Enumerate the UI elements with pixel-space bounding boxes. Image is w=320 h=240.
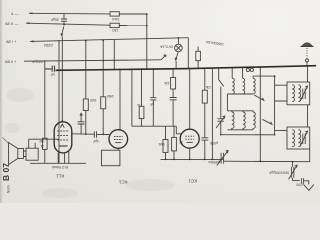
junction dots on bus and nodes <box>58 13 308 162</box>
svg-text:0M1: 0M1 <box>158 142 164 146</box>
volume control variable (500k) <box>221 153 224 164</box>
wire vertical x=212.4 <box>211 68 213 159</box>
wire to tube3 left <box>176 126 181 134</box>
capacitor right of KL1 <box>78 113 85 133</box>
wire vertical x=204.8 <box>204 68 206 90</box>
wire to 200pF cap <box>293 178 300 181</box>
coil upper 3 <box>253 76 255 94</box>
bottom line y=159.4 <box>161 158 225 160</box>
svg-text:AE I +: AE I + <box>6 40 17 44</box>
svg-text:31k0: 31k0 <box>112 17 119 21</box>
wire vertical lamp feed x=188.3 <box>187 38 189 69</box>
wire horizontal y=126.2 <box>132 125 176 127</box>
speaker leads <box>24 151 27 157</box>
capacitor 500pF <box>201 138 208 140</box>
svg-text:610µF: 610µF <box>31 60 42 64</box>
svg-text:Kl.Z 54mA: Kl.Z 54mA <box>51 165 68 169</box>
wire row C (AE I) <box>30 38 188 42</box>
wire switch to bus <box>175 61 177 69</box>
wire bottom right run <box>224 160 310 163</box>
ground branch <box>292 162 294 167</box>
loop contacts under bus <box>246 68 249 71</box>
wire transformer to x=59 <box>29 138 59 140</box>
coil uppers bottom bus wire <box>227 94 253 111</box>
resistor midfield 2 <box>101 97 106 109</box>
shield box under tube2 <box>102 150 120 166</box>
svg-text:B 07: B 07 <box>1 163 11 181</box>
wire lamp top <box>177 38 179 44</box>
resistor right mid <box>202 90 207 103</box>
tube2 electrodes <box>114 137 123 140</box>
trimmer branch <box>220 87 222 119</box>
coil upper 1 <box>232 67 234 94</box>
svg-text:1M0: 1M0 <box>90 98 96 102</box>
svg-text:4 —: 4 — <box>11 11 18 16</box>
ground symbol <box>304 185 314 191</box>
trimmer capacitor TR1 <box>217 119 224 121</box>
antenna jack top right <box>301 45 314 47</box>
wire vertical x=114.3 <box>113 40 115 70</box>
svg-text:2V 0,1A: 2V 0,1A <box>160 45 173 49</box>
svg-text:12k: 12k <box>164 81 170 85</box>
box2 trimmer <box>303 134 305 145</box>
wire below resistor 2 <box>102 109 104 135</box>
switch row D <box>161 55 166 60</box>
coil lower 3 <box>253 111 255 130</box>
main bus <box>56 66 316 71</box>
variable capacitor 500/1000 <box>291 167 293 178</box>
coil lowers top wire <box>227 110 253 112</box>
wire row B (AE II) <box>26 23 110 25</box>
junction dots row D <box>44 60 46 62</box>
wire below resistor 3 <box>141 119 143 127</box>
wire tube1 to cap branch <box>72 133 95 135</box>
wire vertical x=59 rowC to bottom line <box>58 41 60 163</box>
wire vertical x=62.3 to tube1 top <box>61 36 63 121</box>
coil box 1 <box>287 82 310 105</box>
wire below capacitor <box>152 100 154 126</box>
junction row B x=64 <box>63 24 65 26</box>
svg-text:2k: 2k <box>137 103 141 107</box>
capacitor 200pF <box>301 178 303 183</box>
capacitor midfield <box>150 98 156 100</box>
lamp pilot <box>175 44 183 52</box>
resistor bottom mid 1 <box>165 126 167 139</box>
tube3 electrodes <box>185 136 194 139</box>
bottom line under KL1 <box>30 162 86 164</box>
resistor bottom mid 2 <box>173 126 175 137</box>
wire below resistor <box>44 149 46 163</box>
wire vertical x=146.8 <box>146 14 148 69</box>
output transformer box <box>26 148 38 160</box>
wires into box1 <box>275 85 287 101</box>
svg-text:KC1: KC1 <box>118 179 127 184</box>
wire vertical x=141.5 <box>141 69 143 106</box>
box2 coil a <box>292 130 294 147</box>
svg-text:1W0: 1W0 <box>107 94 114 98</box>
resistor midfield 1 <box>83 99 88 111</box>
tube KL1 grids <box>57 131 69 140</box>
tube3 bottom stub <box>189 148 191 159</box>
wire vertical x=274.6 <box>253 76 275 135</box>
box2 coil b <box>298 130 300 147</box>
series capacitor 5uF <box>94 131 96 138</box>
diagonal scan line left <box>3 138 9 144</box>
wire vertical x=85.8 <box>85 40 87 99</box>
svg-text:13k: 13k <box>205 85 211 89</box>
coil lower 2 <box>243 111 245 130</box>
svg-text:0M: 0M <box>39 139 44 143</box>
resistor lower-left <box>43 138 48 149</box>
wire horizontal y=134.7 <box>221 134 275 136</box>
wire row A right <box>119 13 147 15</box>
svg-text:5µF: 5µF <box>93 139 99 143</box>
wire vertical x=131.9 <box>131 69 133 126</box>
resistor R3 (1000 ohm) <box>196 51 201 60</box>
electrolytic capacitor at bus start <box>45 66 55 72</box>
band switch SW1 <box>219 68 224 86</box>
svg-text:30µF: 30µF <box>50 18 59 22</box>
resistor R1 <box>110 12 119 16</box>
wire vertical right box feed <box>308 66 310 162</box>
svg-text:AB II +: AB II + <box>5 60 17 64</box>
box1 coil a <box>292 85 294 102</box>
tube2 base stub <box>117 148 119 150</box>
tube KL1 pins <box>58 151 69 163</box>
svg-text:KL1: KL1 <box>56 173 64 178</box>
wire vertical x=103.2 <box>102 40 104 97</box>
svg-text:500/1000µµF: 500/1000µµF <box>269 171 289 175</box>
capacitor C1 30uF <box>61 14 67 25</box>
wire vertical x=153.3 <box>152 69 154 98</box>
coil lower 1 <box>232 111 234 130</box>
wire row A (terminal 4) <box>29 12 110 15</box>
switch SW2 <box>254 95 264 100</box>
wire cap to tube2 <box>97 133 110 135</box>
svg-text:Norm: Norm <box>7 185 11 193</box>
tube3 top wire <box>189 68 191 129</box>
svg-text:AE II —: AE II — <box>5 22 18 26</box>
resistor screen feed x=173 <box>172 69 174 78</box>
svg-text:GZ84: GZ84 <box>44 43 53 47</box>
svg-text:µ200: µ200 <box>296 183 304 187</box>
svg-text:µ500k±: µ500k± <box>208 160 220 164</box>
wire into box2 <box>275 130 287 132</box>
switch SW3 <box>262 119 272 124</box>
switch below lamp <box>175 52 178 60</box>
svg-text:µF: µF <box>150 102 154 106</box>
transformer top stubs <box>29 139 36 148</box>
svg-text:2k: 2k <box>40 144 44 148</box>
wire vertical x=260.3 <box>259 67 261 161</box>
svg-text:µ005: µ005 <box>210 141 218 145</box>
coil upper 2 <box>243 67 245 94</box>
tube KL1 envelope <box>54 122 72 153</box>
resistor midfield 3 <box>139 106 144 118</box>
speaker <box>18 149 24 159</box>
resistor R2 <box>110 23 119 27</box>
coil box 2 <box>287 127 310 149</box>
svg-text:KC1: KC1 <box>188 178 197 183</box>
wire row B right <box>119 25 147 27</box>
tube KL1 heater <box>60 124 64 127</box>
box1 coil b <box>298 85 300 102</box>
tube KC1 (third) envelope <box>180 129 199 148</box>
switch antenna <box>61 27 64 36</box>
svg-text:13Ω: 13Ω <box>112 28 119 32</box>
coil lowers bottom wire <box>227 129 253 131</box>
svg-text:2Z: 2Z <box>179 140 183 144</box>
wire row D (AB II +) <box>24 60 161 61</box>
wire below resistor 1 <box>85 111 87 135</box>
wire cap to ground <box>304 181 309 185</box>
capacitor below screen resistor <box>170 98 177 100</box>
svg-text:µF: µF <box>50 73 54 77</box>
wire vertical x=120 to tube2 top <box>119 70 121 131</box>
wire R3 stubs <box>197 47 199 69</box>
tube KL1 cathode <box>59 145 68 147</box>
tube KC1 (second) envelope <box>109 130 128 149</box>
wire vertical x=44.8 to lower left <box>44 61 46 138</box>
box1 trimmer <box>303 89 305 100</box>
